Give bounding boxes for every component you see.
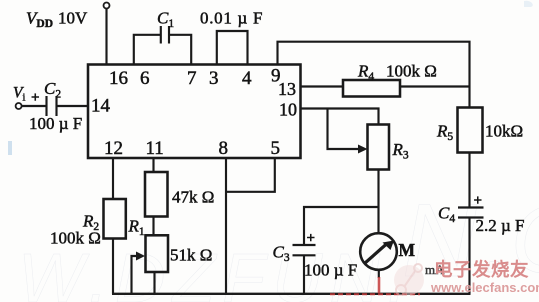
- wire branch to C3: [304, 207, 379, 245]
- wire VDD to pin 16: [105, 9, 107, 65]
- wire C2 to pin 14: [57, 105, 89, 107]
- svg-text:2.2 µ F: 2.2 µ F: [476, 216, 525, 235]
- svg-text:M: M: [399, 240, 416, 260]
- svg-text:+: +: [31, 90, 40, 106]
- wire pin 9 top net: [278, 42, 470, 108]
- svg-text:5: 5: [271, 138, 281, 159]
- svg-text:+: +: [474, 193, 483, 209]
- svg-text:13: 13: [278, 79, 296, 99]
- svg-text:3: 3: [209, 68, 219, 89]
- wire R1 wiper to rail: [132, 256, 141, 294]
- motor/meter M: [360, 233, 397, 270]
- svg-text:11: 11: [146, 138, 164, 159]
- capacitor C4: [458, 206, 484, 208]
- wire C3 to rail: [303, 255, 305, 293]
- svg-text:8: 8: [219, 138, 229, 159]
- svg-text:100 µ F: 100 µ F: [29, 114, 82, 133]
- resistor 47k: [145, 172, 168, 217]
- svg-text:0.01 µ F: 0.01 µ F: [200, 9, 263, 28]
- elecfans molecule logo: [394, 264, 424, 295]
- wire pin 10 to R3 top: [301, 109, 379, 125]
- wire R2 to rail: [112, 239, 114, 294]
- svg-text:6: 6: [140, 68, 150, 89]
- pin labels: [91, 66, 297, 160]
- IC U1 body: [88, 65, 301, 159]
- potentiometer R1: [146, 235, 169, 272]
- wire pin 11 to 47k: [152, 158, 154, 172]
- resistor R4: [343, 80, 400, 97]
- svg-text:电子发烧友: 电子发烧友: [434, 259, 529, 280]
- svg-text:+: +: [307, 231, 316, 247]
- wire Vi to C2: [22, 105, 46, 107]
- pale blue smudge top right: [524, 1, 533, 7]
- faint watermark big letters: [18, 183, 539, 302]
- resistor R2: [104, 199, 126, 239]
- svg-text:4: 4: [242, 68, 252, 89]
- wire R4 to right column: [400, 85, 470, 87]
- wire pin 12 to R2: [112, 158, 114, 199]
- input terminal Vi: [16, 103, 22, 109]
- svg-text:51k Ω: 51k Ω: [170, 246, 212, 265]
- capacitor 0.01uF loop (between pins 3 and 4): [217, 31, 248, 65]
- VDD terminal: [104, 3, 110, 9]
- red watermark dashes: [330, 277, 420, 294]
- svg-text:10V: 10V: [58, 9, 88, 28]
- svg-text:100k Ω: 100k Ω: [50, 229, 101, 248]
- pale blue tick left edge: [8, 141, 12, 155]
- wire pin 8 to rail: [225, 158, 227, 294]
- svg-text:14: 14: [91, 96, 111, 117]
- wire pin 13 to R4: [301, 85, 344, 87]
- wire R3 wiper: [328, 109, 363, 150]
- wire R3 bottom to meter: [377, 170, 379, 234]
- potentiometer R3: [368, 125, 390, 170]
- svg-text:7: 7: [187, 68, 197, 89]
- svg-text:10kΩ: 10kΩ: [485, 122, 523, 141]
- resistor R5: [458, 108, 483, 153]
- wire pin 5 jog to pin 8: [226, 158, 275, 192]
- wire 47k to R1: [152, 217, 154, 236]
- svg-text:100k Ω: 100k Ω: [386, 62, 437, 81]
- svg-text:www.elecfans.com: www.elecfans.com: [430, 280, 539, 295]
- wire R5 to C4: [468, 153, 470, 208]
- capacitor C3: [293, 244, 316, 246]
- capacitor C2: [45, 96, 47, 116]
- svg-text:47k Ω: 47k Ω: [172, 188, 214, 207]
- ground rail wire: [112, 293, 471, 295]
- wire R1 bottom to rail: [153, 272, 155, 294]
- wire meter to rail: [378, 270, 380, 279]
- svg-text:100 µ F: 100 µ F: [304, 261, 357, 280]
- capacitor C1 (between pins 6 and 7): [134, 26, 191, 65]
- svg-text:12: 12: [104, 138, 123, 159]
- wire C4 to rail: [468, 218, 470, 294]
- svg-text:10: 10: [279, 100, 297, 120]
- svg-text:16: 16: [109, 68, 128, 89]
